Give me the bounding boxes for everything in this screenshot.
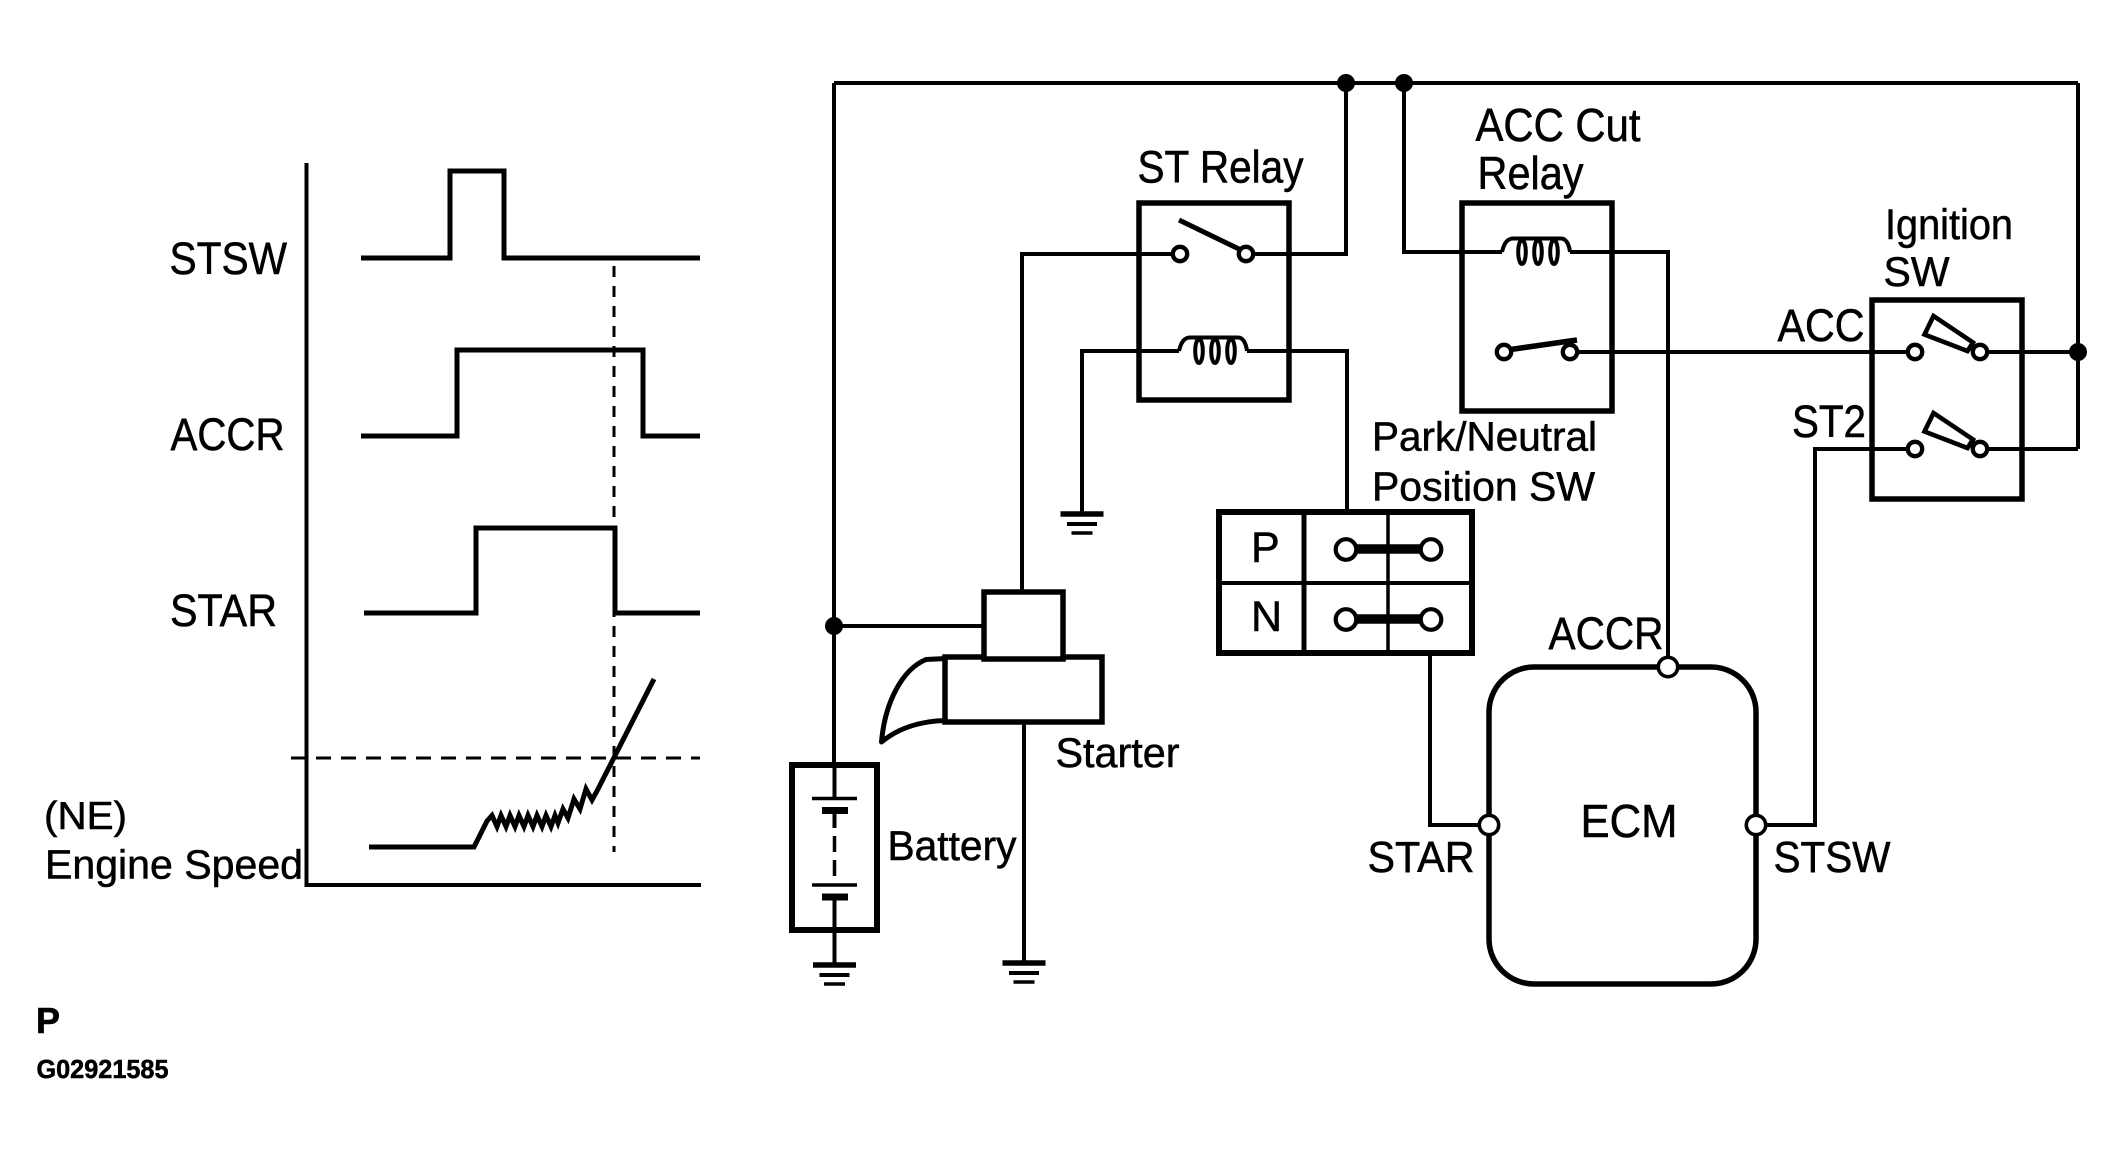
wire: ignition ST2 to ECM STSW [1756,449,1915,825]
ST relay K1 box [1139,203,1289,400]
P/N switch P contact left [1336,539,1357,560]
ground: ST relay coil [1061,514,1104,533]
ST relay contact right [1239,247,1253,261]
svg-text:P: P [36,1000,60,1041]
svg-text:Relay: Relay [1478,147,1584,199]
ACCR waveform [361,350,700,436]
svg-text:Starter: Starter [1056,729,1180,776]
dashed horizontal threshold line [291,757,700,760]
ECM U1 [1489,667,1756,984]
svg-text:Battery: Battery [888,822,1017,869]
P/N switch N contact right [1421,609,1442,630]
svg-text:ST2: ST2 [1792,396,1866,447]
ignition ACC contact left [1908,345,1922,359]
svg-text:STSW: STSW [1774,833,1891,882]
timing diagram vertical axis [305,163,309,885]
ACC cut relay coil L2 [1502,239,1570,265]
battery B1 [792,765,877,930]
svg-text:ECM: ECM [1581,795,1678,847]
engine speed curve (NE) [369,679,654,847]
STSW waveform [361,171,700,258]
P/N switch P contact bar [1350,544,1428,554]
wire: ACC cut relay contact to ignition switch ACC [1570,350,1915,354]
svg-text:N: N [1251,593,1282,641]
wire: starter motor to ground [1022,722,1026,962]
timing diagram horizontal axis [305,883,702,887]
ignition ST2 key lever [1925,413,1974,448]
svg-text:STSW: STSW [170,233,288,284]
svg-text:STAR: STAR [1368,833,1475,882]
P/N switch N contact bar [1350,614,1428,624]
ignition ST2 contact right [1973,442,1987,456]
wire: battery negative to ground [833,930,837,964]
svg-text:ACCR: ACCR [1549,608,1664,659]
ignition ACC contact right [1973,345,1987,359]
wire: ST relay coil to park/neutral switch [1247,351,1347,512]
wire: ignition ACC to right bus [1980,350,2078,354]
ACC cut relay K2 box [1462,203,1612,411]
ECM pin ACCR [1658,657,1677,676]
wire: ignition ST2 right to bus [1980,447,2078,451]
ECM pin STAR [1479,815,1498,834]
ST relay contact left [1173,247,1187,261]
junction dot: right bus at ACC [2069,343,2087,361]
svg-text:STAR: STAR [170,585,277,636]
wire: ACC cut relay coil to ECM ACCR [1570,252,1668,667]
wire: P/N switch to ECM STAR [1430,653,1489,825]
wire: left vertical battery feed [832,83,836,766]
svg-text:Position SW: Position SW [1372,464,1595,510]
ACC cut relay contact right [1563,345,1577,359]
ignition ACC key lever [1925,316,1974,351]
ST relay switch arm [1179,220,1241,250]
wire: ST relay coil to ground [1082,351,1179,513]
svg-text:ACC Cut: ACC Cut [1476,99,1641,151]
wire: top supply bus [834,81,2078,85]
starter M1 [882,592,1103,742]
P/N switch N contact left [1336,609,1357,630]
ACC cut relay contact left [1497,345,1511,359]
P/N switch P contact right [1421,539,1442,560]
ignition ST2 contact left [1908,442,1922,456]
STAR waveform [364,528,700,613]
svg-text:ST Relay: ST Relay [1138,142,1304,193]
svg-text:ACCR: ACCR [171,409,285,460]
ground: battery [813,965,856,984]
junction dot: ACC cut relay branch [1395,74,1413,92]
junction dot: starter branch [825,617,843,635]
wire: bus to ST relay contact [1246,83,1346,254]
svg-text:Park/Neutral: Park/Neutral [1372,414,1597,460]
svg-text:Engine Speed: Engine Speed [45,842,303,888]
ACC cut relay switch arm [1507,340,1577,350]
svg-text:G02921585: G02921585 [37,1054,169,1084]
ECM pin STSW [1746,815,1765,834]
svg-text:P: P [1251,524,1280,572]
wire: bus to ACC cut relay coil [1404,83,1502,252]
dashed vertical sync line [613,266,616,852]
svg-text:(NE): (NE) [44,795,127,838]
svg-text:ACC: ACC [1778,300,1865,351]
junction dot: ST relay branch [1337,74,1355,92]
wire: ST relay contact to starter solenoid [1022,254,1180,592]
ST relay coil L1 [1179,338,1247,364]
ignition switch box [1872,300,2022,499]
svg-text:Ignition: Ignition [1885,201,2013,249]
ground: starter [1003,963,1046,982]
svg-text:SW: SW [1884,248,1950,295]
wire: battery node to starter solenoid [834,624,984,628]
park/neutral position switch box [1219,512,1472,653]
wire: right bus vertical [2076,83,2080,449]
